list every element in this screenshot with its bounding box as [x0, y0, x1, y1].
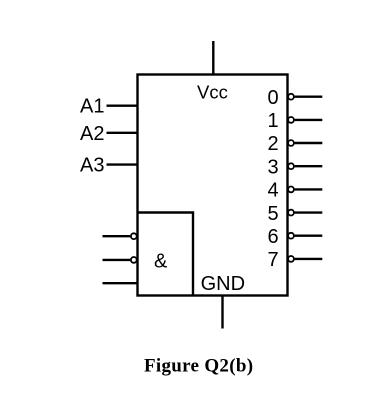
wire enable input E1 — [103, 235, 131, 237]
svg-text:Figure Q2(b): Figure Q2(b) — [144, 356, 253, 377]
svg-text:5: 5 — [268, 203, 279, 225]
svg-text:A3: A3 — [80, 155, 104, 177]
svg-text:2: 2 — [268, 133, 279, 155]
svg-text:GND: GND — [201, 273, 245, 295]
svg-text:3: 3 — [268, 156, 279, 178]
GND stub wire — [221, 296, 223, 329]
svg-text:7: 7 — [268, 249, 279, 271]
svg-text:6: 6 — [268, 226, 279, 248]
inversion bubble on E2 — [131, 257, 137, 263]
wire enable input E2 — [103, 259, 131, 261]
wire input A3 — [107, 163, 138, 165]
decoder IC body U1 — [138, 75, 288, 296]
svg-text:A1: A1 — [80, 96, 104, 118]
wire input A2 — [107, 132, 138, 134]
wire input A1 — [107, 104, 138, 106]
svg-text:&: & — [154, 251, 168, 273]
svg-text:Vcc: Vcc — [197, 81, 228, 102]
svg-text:0: 0 — [268, 87, 279, 109]
enable AND-gate sub-block — [138, 213, 194, 296]
wire enable input E3 — [103, 282, 138, 284]
svg-text:A2: A2 — [80, 123, 104, 145]
svg-text:4: 4 — [268, 180, 279, 202]
svg-text:1: 1 — [268, 110, 279, 132]
inversion bubble on E1 — [131, 233, 137, 239]
Vcc supply stub wire — [212, 41, 214, 75]
